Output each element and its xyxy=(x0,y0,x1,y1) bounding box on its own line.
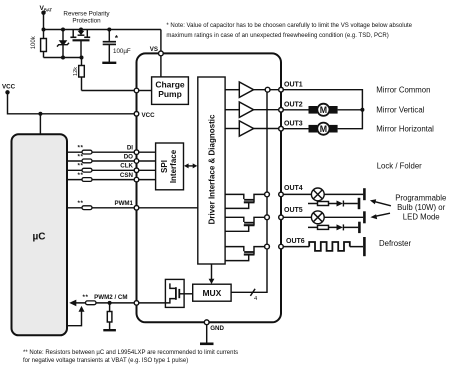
svg-text:OUT1: OUT1 xyxy=(284,81,303,88)
wire VCC to uC xyxy=(39,114,41,135)
svg-text:Programmable: Programmable xyxy=(395,193,446,202)
buffer amp OUT1 xyxy=(225,82,281,97)
svg-text:**: ** xyxy=(78,163,84,170)
pin GND xyxy=(204,320,209,325)
svg-text:** Note: Resistors between µC: ** Note: Resistors between µC and L9954L… xyxy=(23,350,238,356)
ground (capacitor) xyxy=(102,62,116,64)
arrow up to PWM2 wire xyxy=(79,306,85,312)
node OUT6 junction xyxy=(265,244,270,249)
wire 12k to chip pin xyxy=(82,90,152,92)
junction xyxy=(79,28,83,32)
svg-text:Mirror Vertical: Mirror Vertical xyxy=(376,105,424,114)
note bottom xyxy=(23,350,238,364)
wire PWM1 xyxy=(67,207,198,209)
svg-text:**: ** xyxy=(78,153,84,160)
defroster heater element xyxy=(309,242,350,251)
svg-text:Mirror Common: Mirror Common xyxy=(376,85,430,94)
arrow to OUT4 load xyxy=(370,199,391,206)
driver interface and diagnostic block xyxy=(198,77,225,264)
SPI interface block xyxy=(156,143,184,190)
pin OUT1 xyxy=(279,87,284,92)
wire DI to SPI xyxy=(138,151,156,153)
node VCC xyxy=(2,84,16,95)
svg-text:DI: DI xyxy=(127,145,133,152)
wire pin to charge pump xyxy=(138,90,152,92)
wire MUX bus vertical xyxy=(231,90,267,293)
wire DO xyxy=(67,160,156,162)
junction xyxy=(61,56,65,60)
transistor Q1 reverse polarity PMOS xyxy=(70,30,90,58)
svg-text:OUT3: OUT3 xyxy=(284,120,303,127)
diode OUT4 LED xyxy=(337,201,344,207)
svg-text:CLK: CLK xyxy=(120,163,133,170)
svg-text:Charge: Charge xyxy=(155,79,185,89)
charge pump U2 xyxy=(152,77,189,105)
node VBAT xyxy=(40,5,53,15)
pin DI xyxy=(134,150,139,155)
pin OUT2 xyxy=(279,108,284,113)
svg-text:VS: VS xyxy=(150,46,158,53)
capacitor C1 100uF xyxy=(103,30,131,63)
svg-text:PWM2 / CM: PWM2 / CM xyxy=(94,294,127,301)
wire PWM2/CM xyxy=(76,302,165,304)
resistor 100k xyxy=(31,30,46,58)
pin OUT6 xyxy=(279,244,284,249)
svg-text:Lock / Folder: Lock / Folder xyxy=(377,162,422,171)
svg-text:µC: µC xyxy=(33,232,46,243)
pin OUT5 xyxy=(279,215,284,220)
wire OUT6 xyxy=(283,246,363,248)
diode OUT5 LED xyxy=(337,224,344,230)
wire top rail xyxy=(44,29,161,31)
wire OUT1 xyxy=(283,90,362,110)
transistor OUT6 low side xyxy=(225,247,265,261)
resistor series PWM1 xyxy=(78,200,93,209)
svg-text:DO: DO xyxy=(124,153,133,160)
zener diode D1 xyxy=(57,30,69,58)
terminal bar OUT4 bulb xyxy=(363,188,366,200)
wire CLK to SPI xyxy=(138,169,156,171)
buffer amp OUT3 xyxy=(225,121,281,136)
svg-text:maximum ratings in case of an: maximum ratings in case of an unexpected… xyxy=(166,33,388,39)
svg-text:Mirror Horizontal: Mirror Horizontal xyxy=(376,124,434,133)
junction xyxy=(61,28,65,32)
transistor OUT5 low side xyxy=(225,217,265,231)
pin (charge pump supply) xyxy=(134,88,139,93)
arrow to OUT5 load xyxy=(370,213,390,219)
pin VS xyxy=(159,51,164,56)
svg-text:100k: 100k xyxy=(31,35,37,49)
resistor 12k xyxy=(73,58,84,91)
wire VBAT to top rail xyxy=(43,13,45,30)
terminal bar OUT4 LED xyxy=(358,198,361,209)
junction xyxy=(107,28,111,32)
wire OUT5 LED branch xyxy=(308,226,358,228)
svg-text:Bulb (10W) or: Bulb (10W) or xyxy=(397,203,445,212)
svg-text:12k: 12k xyxy=(73,67,79,76)
svg-text:**: ** xyxy=(78,172,84,179)
svg-text:100µF: 100µF xyxy=(113,48,131,55)
junction xyxy=(38,112,42,116)
terminal bar OUT5 bulb xyxy=(363,211,366,223)
buffer amp OUT2 xyxy=(225,102,281,117)
wire VCC to chip xyxy=(8,92,137,114)
ground (GND pin) xyxy=(200,342,214,345)
resistor series PWM2 xyxy=(83,294,97,305)
svg-text:Interface: Interface xyxy=(169,149,178,183)
junction xyxy=(42,28,46,32)
arrow driver to MUX xyxy=(209,264,215,284)
motor M2 mirror horizontal xyxy=(309,123,338,135)
pin DO xyxy=(134,159,139,164)
lamp OUT4 xyxy=(311,188,324,201)
svg-text:VCC: VCC xyxy=(2,84,16,91)
svg-text:**: ** xyxy=(78,200,84,207)
wire DI xyxy=(67,151,156,153)
bidirectional arrow SPI-driver xyxy=(184,163,197,168)
svg-text:**: ** xyxy=(83,294,89,301)
label Programmable Bulb (10W) or LED Mode xyxy=(395,193,446,221)
svg-text:for negative voltage transient: for negative voltage transients at VBAT … xyxy=(23,358,188,364)
arrow into uC xyxy=(69,300,76,307)
svg-text:CSN: CSN xyxy=(120,172,134,179)
pin VCC xyxy=(134,112,139,117)
wire OUT2 xyxy=(283,109,362,111)
wire feedback to uC xyxy=(67,311,82,325)
transistor OUT4 low side xyxy=(225,194,265,208)
wire CSN to SPI xyxy=(138,179,156,181)
wire OUT4 xyxy=(283,193,363,195)
resistor pulldown CM xyxy=(107,303,112,330)
svg-text:**: ** xyxy=(78,145,84,152)
wire VS rail down to charge pump xyxy=(160,30,162,77)
svg-text:M: M xyxy=(320,124,327,134)
svg-text:SPI: SPI xyxy=(160,160,169,173)
resistor series DO xyxy=(78,153,93,162)
svg-text:Protection: Protection xyxy=(72,18,101,25)
wire DO to SPI xyxy=(138,160,156,162)
node OUT4 junction xyxy=(265,192,270,197)
MUX block xyxy=(193,284,231,301)
resistor OUT5 LED xyxy=(318,225,329,229)
svg-text:M: M xyxy=(320,105,327,115)
wire OUT3 xyxy=(283,110,362,129)
svg-text:MUX: MUX xyxy=(202,288,221,298)
svg-text:VCC: VCC xyxy=(142,112,156,119)
svg-text:Driver Interface & Diagnostic: Driver Interface & Diagnostic xyxy=(208,114,217,224)
svg-text:Pump: Pump xyxy=(158,89,182,99)
label Reverse Polarity Protection xyxy=(63,11,110,25)
pin OUT3 xyxy=(279,126,284,131)
note top xyxy=(166,23,412,39)
pin PWM1 xyxy=(134,206,139,211)
junction xyxy=(108,301,112,305)
pin PWM2 xyxy=(134,301,139,306)
microcontroller uC xyxy=(12,134,68,335)
junction xyxy=(360,108,364,112)
wire OUT5 xyxy=(283,216,363,218)
svg-text:OUT5: OUT5 xyxy=(284,207,303,214)
terminal bar OUT5 LED xyxy=(358,222,361,233)
svg-text:PWM1: PWM1 xyxy=(114,200,133,207)
svg-text:LED Mode: LED Mode xyxy=(403,212,440,221)
wire bottom rail xyxy=(44,57,82,59)
svg-text:OUT4: OUT4 xyxy=(284,185,303,192)
resistor series CLK xyxy=(78,163,93,172)
pin CSN xyxy=(134,177,139,182)
svg-text:Defroster: Defroster xyxy=(379,239,411,248)
IC L9954 outline xyxy=(137,53,282,322)
pin OUT4 xyxy=(279,192,284,197)
current sense MOSFET box xyxy=(165,279,192,307)
junction xyxy=(80,56,84,60)
terminal bar OUT6 xyxy=(363,237,366,256)
svg-text:GND: GND xyxy=(210,325,224,332)
resistor series CSN xyxy=(78,172,93,181)
wire CSN xyxy=(67,179,156,181)
wire GND xyxy=(206,325,208,344)
motor M1 mirror vertical xyxy=(309,104,338,116)
wire PWM1 to driver xyxy=(138,207,198,209)
svg-text:* Note: Value of capacitor has: * Note: Value of capacitor has to be cho… xyxy=(166,23,412,29)
wire OUT4 LED branch xyxy=(308,203,358,205)
wire CLK xyxy=(67,169,156,171)
resistor series DI xyxy=(78,145,93,154)
ground (CM resistor) xyxy=(103,329,116,331)
lamp OUT5 xyxy=(311,211,324,224)
bus slash 4 xyxy=(250,289,258,302)
node OUT1 junction xyxy=(265,87,270,92)
resistor OUT4 LED xyxy=(318,202,329,206)
pin CLK xyxy=(134,168,139,173)
wire PWM2 to sense box xyxy=(138,302,166,304)
node OUT5 junction xyxy=(265,215,270,220)
svg-text:OUT6: OUT6 xyxy=(286,238,305,245)
svg-text:OUT2: OUT2 xyxy=(284,102,303,109)
